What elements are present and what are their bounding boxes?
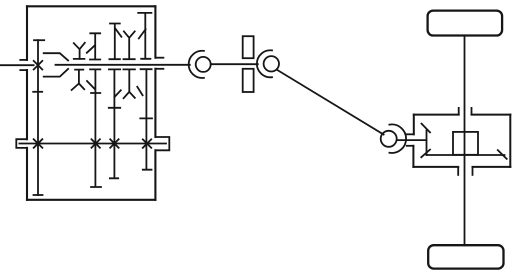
input bearing upper ledge (20, 59, 27, 61)
countershaft left bearing notch (16, 139, 27, 148)
pinion bearing lower ledge (407, 145, 414, 147)
diagonal link d4 (87, 81, 95, 89)
gear C upper (138, 13, 151, 59)
right side gear tooth (498, 150, 507, 159)
universal joint U1 yoke arc (189, 51, 204, 78)
clutch fork lower arm (44, 69, 68, 77)
pinion bearing upper ledge (407, 133, 414, 135)
differential housing left wall lower (412, 146, 414, 167)
output bearing lower ledge (155, 68, 163, 70)
gear A lower column (90, 69, 101, 187)
crown wheel (426, 131, 428, 156)
axle bearing tick bottom right (472, 167, 474, 175)
input gear bottom cap (34, 194, 43, 196)
fixed joint X on countershaft (column C) (143, 139, 151, 147)
gear B upper (109, 24, 120, 60)
universal joint U3 yoke arc (389, 124, 406, 153)
slip joint lower block (243, 69, 254, 92)
intermediate shaft (211, 63, 258, 65)
fixed joint X on countershaft (1st column) (34, 139, 43, 148)
input bearing lower ledge (20, 69, 27, 71)
input gear top cap (34, 39, 44, 41)
axle bearing tick top left (458, 108, 460, 115)
synchronizer Y2 lower (123, 69, 134, 98)
countershaft (19, 143, 166, 145)
wheel lower (428, 245, 503, 268)
input gear column vertical (37, 40, 39, 195)
differential housing top left (414, 114, 459, 116)
gearbox housing top edge (27, 5, 155, 7)
rear axle shaft (464, 36, 466, 246)
universal joint U2 yoke arc (257, 50, 272, 77)
gearbox housing left wall upper (26, 6, 28, 60)
diagonal link d6 (137, 87, 142, 95)
synchronizer Y1 lower (72, 70, 85, 90)
input gear mid tick (33, 91, 42, 93)
universal joint U2 circle (264, 56, 279, 71)
gear A upper (90, 33, 100, 59)
slip joint upper block (243, 36, 254, 58)
bevel pinion lower tooth (421, 150, 430, 158)
input shaft (0, 64, 34, 66)
synchronizer Y2 upper (124, 31, 135, 59)
axle bearing tick bottom left (457, 167, 459, 175)
output bearing upper ledge (155, 57, 163, 59)
gearbox housing left wall lower (26, 148, 28, 200)
gearbox housing right wall upper (154, 6, 156, 57)
diagonal link d5 (115, 90, 121, 97)
differential cage (453, 132, 478, 155)
gear B lower column (109, 69, 120, 178)
gear C lower column (140, 69, 152, 170)
differential housing top right (472, 114, 511, 116)
fixed joint X on input shaft (34, 61, 43, 70)
mainshaft (56, 64, 190, 66)
wheel upper (428, 11, 503, 36)
gearbox housing bottom edge (27, 199, 155, 201)
diagonal link d3 (139, 29, 146, 38)
universal joint U3 circle (381, 131, 397, 147)
gearbox housing right wall middle (154, 69, 156, 137)
differential housing right wall (509, 115, 511, 167)
countershaft right bearing notch (155, 137, 169, 150)
gearbox housing right wall lower (154, 150, 156, 200)
axle bearing tick top right (471, 108, 473, 115)
diagonal link d1 (87, 45, 95, 52)
carrier line (427, 154, 505, 156)
propeller shaft (278, 70, 384, 134)
clutch fork upper arm (44, 53, 68, 60)
bevel pinion upper tooth (422, 124, 431, 133)
differential housing bottom left (413, 166, 458, 168)
fixed joint X on countershaft (column A) (92, 139, 100, 147)
differential housing left wall upper (413, 115, 415, 135)
diagonal link d2 (116, 29, 122, 37)
universal joint U1 circle (196, 57, 211, 72)
fixed joint X on countershaft (column B) (110, 139, 118, 147)
synchronizer Y1 upper (74, 43, 85, 59)
differential housing bottom right (473, 166, 511, 168)
pinion shaft (397, 139, 427, 141)
gearbox housing left wall middle (26, 70, 28, 139)
